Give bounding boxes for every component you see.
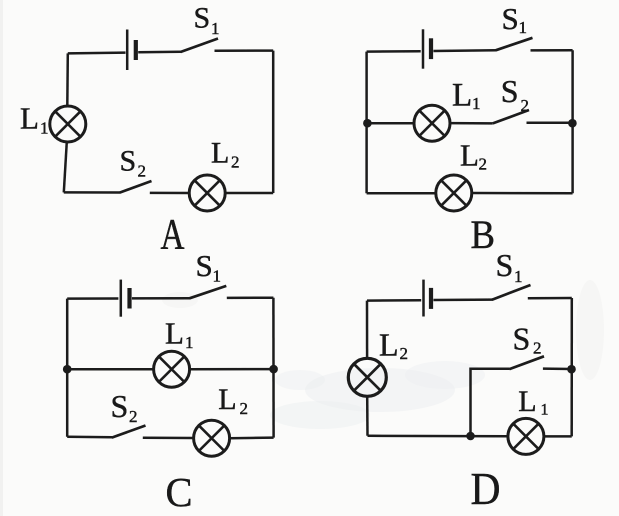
svg-text:L: L [165, 315, 184, 350]
svg-text:1: 1 [519, 18, 528, 37]
svg-text:1: 1 [211, 19, 220, 38]
svg-text:S: S [111, 388, 129, 424]
svg-text:1: 1 [185, 333, 194, 352]
svg-text:L: L [211, 137, 229, 170]
svg-text:2: 2 [231, 152, 240, 171]
svg-text:L: L [518, 385, 536, 418]
svg-text:2: 2 [521, 96, 530, 115]
svg-text:2: 2 [129, 407, 138, 426]
svg-text:L: L [218, 383, 236, 416]
svg-text:L: L [20, 100, 39, 135]
svg-text:S: S [513, 321, 531, 357]
svg-text:S: S [496, 247, 514, 283]
svg-text:1: 1 [472, 94, 481, 113]
svg-text:2: 2 [240, 399, 249, 418]
svg-text:B: B [471, 212, 496, 257]
svg-text:1: 1 [514, 267, 523, 286]
svg-text:S: S [196, 248, 213, 283]
svg-text:D: D [471, 463, 501, 514]
svg-text:S: S [502, 1, 519, 36]
svg-text:1: 1 [213, 267, 222, 286]
svg-text:L: L [379, 327, 399, 363]
svg-text:S: S [501, 73, 519, 109]
svg-text:A: A [161, 212, 185, 259]
svg-text:S: S [194, 2, 211, 35]
svg-text:2: 2 [479, 155, 488, 174]
svg-text:L: L [452, 77, 472, 113]
svg-text:L: L [460, 137, 479, 172]
svg-text:C: C [166, 469, 193, 515]
svg-text:2: 2 [138, 161, 147, 180]
svg-text:1: 1 [40, 119, 49, 138]
svg-text:2: 2 [533, 339, 542, 358]
svg-text:S: S [120, 145, 137, 178]
svg-text:1: 1 [541, 402, 549, 419]
svg-text:2: 2 [400, 344, 409, 363]
